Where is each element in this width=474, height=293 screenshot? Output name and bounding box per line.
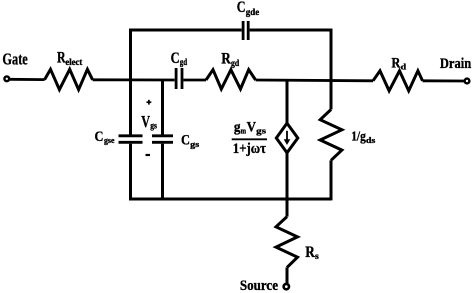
wire current source to Rs [286,153,289,217]
capacitor C_gde [242,21,245,40]
svg-text:Source: Source [240,278,278,293]
capacitor C_gse [119,134,143,137]
svg-text:C: C [171,50,180,67]
svg-text:V: V [247,120,257,136]
svg-text:1+jωτ: 1+jωτ [233,141,266,157]
wire Rgd to Rd [256,79,373,83]
svg-text:gde: gde [246,7,259,17]
svg-text:R: R [305,244,315,261]
wire 1/gds to bottom [330,160,333,200]
svg-text:elect: elect [65,57,82,67]
wire second vertical upper [161,80,164,135]
svg-text:gd: gd [180,57,187,67]
svg-text:C: C [237,0,246,16]
label plus sign [147,101,152,103]
Source terminal [284,284,289,289]
wire left vertical upper [129,80,132,135]
bottom wire [129,198,331,201]
svg-text:C: C [181,133,190,149]
Gate terminal [4,76,9,81]
svg-text:gse: gse [104,135,115,145]
fraction bar [232,138,267,140]
svg-text:m: m [241,125,246,135]
svg-text:Drain: Drain [440,56,472,72]
svg-text:R: R [221,51,231,68]
svg-text:gd: gd [231,58,239,68]
resistor R_s [276,217,298,268]
Drain terminal [465,79,470,84]
label minus sign [146,154,151,156]
capacitor C_gs [152,134,173,137]
wire top-right loop [250,30,331,80]
svg-text:d: d [401,61,407,71]
wire gate to Relect [10,78,45,81]
resistor R_elect [45,69,93,89]
wire right vertical upper to 1/gds [330,80,333,110]
wire left vertical lower [129,144,132,201]
capacitor C_gd [175,68,178,89]
wire Rd to Drain [423,79,465,82]
svg-text:1/g: 1/g [351,129,366,144]
wire second vertical lower [161,144,164,199]
wire Cgd to Rgd [183,79,206,82]
resistor R_gd [206,70,256,89]
wire Relect to Cgd [93,78,175,81]
resistor R_d [373,71,423,91]
svg-text:gs: gs [190,139,200,149]
wire Rs to source terminal [286,267,289,283]
svg-text:V: V [141,112,150,131]
svg-text:Gate: Gate [2,50,27,69]
wire down to current source [286,80,289,123]
current source diamond [276,123,298,153]
wire top-left loop [131,30,242,80]
current source arrow [286,131,288,141]
resistor 1/gds zigzag [320,110,342,161]
svg-text:R: R [391,56,400,72]
svg-text:gs: gs [256,126,267,136]
svg-text:ds: ds [366,135,376,145]
svg-text:C: C [95,129,104,145]
svg-text:s: s [315,251,319,261]
svg-text:gs: gs [150,121,157,131]
